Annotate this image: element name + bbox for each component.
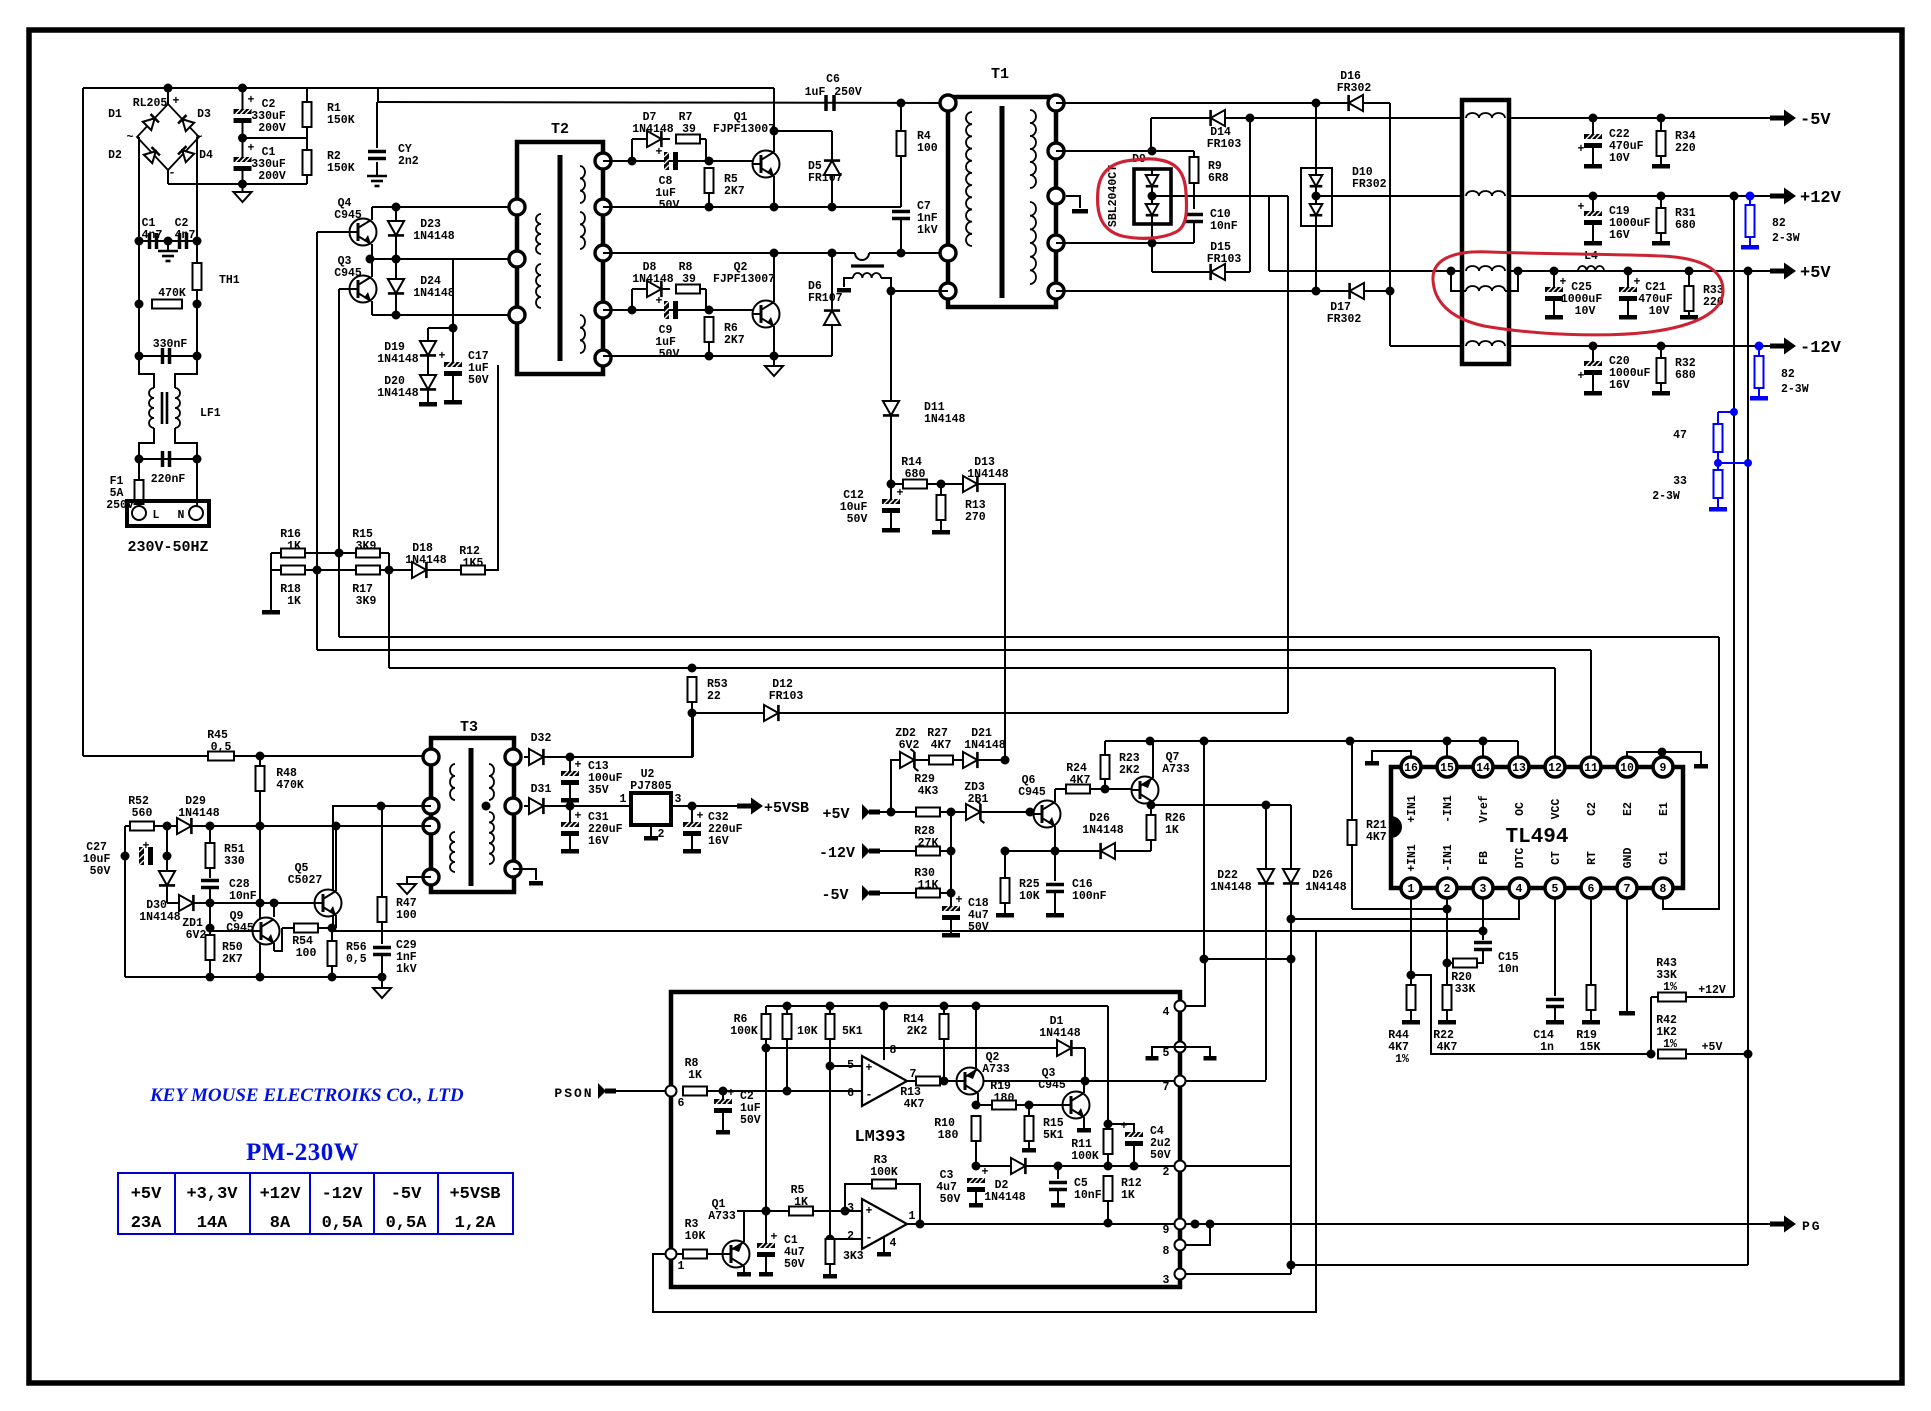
junction y271 wind a	[1447, 267, 1456, 276]
diode D17	[1341, 290, 1369, 292]
wire C31 stem	[569, 806, 571, 822]
transistor Q4	[350, 219, 377, 246]
wire base row y310	[603, 309, 753, 311]
junction D1 R6 node	[762, 1044, 771, 1053]
resistor R28 body	[916, 847, 940, 856]
svg-text:D17 FR302: D17 FR302	[1327, 301, 1362, 326]
junction y151 D9 top	[1148, 147, 1157, 156]
junction top rail bridge	[164, 84, 173, 93]
junction out8	[1206, 1220, 1215, 1229]
wire sense row y713	[692, 712, 1288, 714]
junction Q9 base node	[206, 924, 215, 933]
wire R21 to pin2	[1352, 908, 1447, 910]
junction D26b DTC	[1287, 915, 1296, 924]
wire y959 row	[1204, 958, 1291, 960]
transistor Q1 LM	[723, 1241, 750, 1268]
wire long C1 net y637	[339, 636, 1719, 638]
terminal T2 left 2	[509, 251, 525, 267]
wire ZD2 to R27	[918, 759, 929, 761]
diode D8	[642, 288, 670, 290]
svg-text:R3 100K: R3 100K	[870, 1154, 898, 1179]
junction rail Q2 col	[972, 1002, 981, 1011]
wire pin14 stub	[1482, 741, 1484, 757]
wire R48 stem	[259, 756, 261, 766]
svg-text:2-3W: 2-3W	[1781, 383, 1809, 396]
transistor Q9	[253, 918, 280, 945]
svg-text:R12 1K5: R12 1K5	[459, 545, 487, 570]
capacitor C20	[1584, 361, 1602, 375]
svg-text:2-3W: 2-3W	[1652, 490, 1680, 503]
wire out4	[1186, 959, 1205, 1006]
wire blue divider stem a	[1717, 412, 1719, 424]
junction R5 right	[841, 1207, 850, 1216]
junction R12 node	[1104, 1162, 1113, 1171]
wire TH1 bottom	[196, 290, 198, 304]
winding T2 sec a	[580, 166, 585, 203]
wire C5 stem	[1057, 1166, 1059, 1179]
svg-text:C28 10nF: C28 10nF	[229, 878, 257, 903]
earth ground 4n7	[158, 251, 178, 261]
wire D26b col	[1290, 805, 1292, 1274]
wire row553 b	[305, 552, 356, 554]
ground pin7	[1619, 1011, 1635, 1016]
svg-text:RT: RT	[1586, 851, 1599, 865]
wire T3 right gnd	[513, 869, 536, 880]
wire blue mid link	[1718, 462, 1748, 464]
wire D10 bottom to y291	[1315, 226, 1317, 291]
junction R26 top	[1147, 801, 1156, 810]
svg-text:Q2 A733: Q2 A733	[982, 1051, 1010, 1076]
wire Q4 base column x317	[316, 232, 318, 570]
wire 3K3 bottom	[829, 1264, 831, 1274]
wire Q1 emitter	[743, 1266, 745, 1272]
ground blue -12V	[1750, 396, 1768, 401]
winding T1 sec a	[1030, 110, 1036, 188]
junction PG	[1191, 1220, 1200, 1229]
wire C3 bottom	[975, 1192, 977, 1203]
wire pin1 to +5 row	[1411, 975, 1651, 1054]
capacitor C10	[1185, 215, 1203, 222]
terminal T3 left 3	[423, 818, 439, 834]
wire R10 bottom	[975, 1141, 977, 1166]
junction 10K node	[783, 1087, 792, 1096]
junction C3 node	[972, 1162, 981, 1171]
wire x125 col	[124, 826, 126, 977]
svg-text:+: +	[575, 759, 582, 772]
wire blue stem3	[1758, 388, 1760, 396]
wire R24 out	[1090, 788, 1131, 790]
resistor R1 body	[303, 102, 312, 127]
wire D30 row	[167, 902, 210, 904]
resistor R2 body	[303, 150, 312, 175]
wire Q2 collector	[773, 253, 775, 302]
svg-text:-12V: -12V	[819, 845, 855, 862]
svg-text:Q6 C945: Q6 C945	[1018, 774, 1046, 799]
capacitor C6	[826, 95, 834, 111]
junction 220nF left	[135, 455, 144, 464]
svg-text:+: +	[1560, 276, 1567, 289]
terminal N	[189, 506, 203, 520]
wire Q1 coll up	[743, 1211, 745, 1242]
wire R13 out	[940, 1080, 957, 1082]
wire U2 gnd stem	[650, 825, 652, 836]
wire D23 column	[395, 207, 397, 259]
junction -5V C22	[1589, 114, 1598, 123]
ground C21	[1619, 315, 1637, 320]
wire 330nF row	[139, 355, 197, 357]
wire pin3 col	[1482, 898, 1484, 940]
wire R1 bottom	[306, 127, 308, 138]
wire R7 corner down	[705, 139, 707, 161]
capacitor C16	[1046, 885, 1064, 892]
svg-text:-: -	[866, 1089, 873, 1102]
resistor R56 body	[328, 941, 337, 966]
svg-text:-: -	[169, 167, 176, 180]
junction 470K left	[135, 300, 144, 309]
svg-text:1: 1	[678, 1260, 685, 1273]
svg-text:VCC: VCC	[1550, 799, 1563, 820]
junction R19 left	[972, 1101, 981, 1110]
ground T1 tap	[1072, 209, 1088, 214]
junction blue mid	[1714, 459, 1722, 467]
svg-text:2: 2	[847, 1230, 854, 1243]
terminal T1 right 3	[1048, 188, 1064, 204]
diode D24	[395, 274, 397, 302]
ground C31	[561, 849, 579, 854]
wire C21 bottom	[1627, 301, 1629, 315]
junction y741 Q7e2	[1200, 737, 1209, 746]
svg-text:GND: GND	[1622, 848, 1635, 869]
svg-text:47: 47	[1673, 429, 1687, 442]
junction Q6 emitter	[1051, 847, 1060, 856]
wire op1 out	[907, 1080, 916, 1082]
wire C16 bottom	[1054, 892, 1056, 913]
svg-text:470K: 470K	[158, 287, 186, 300]
wire R20 left	[1447, 962, 1453, 964]
wire R15 top	[1028, 1105, 1030, 1116]
resistor 47 blue	[1714, 424, 1723, 452]
svg-text:PSON: PSON	[554, 1086, 593, 1101]
junction 220nF right	[193, 455, 202, 464]
wire D21 out	[981, 759, 1005, 761]
wire D16 corner down	[1389, 103, 1391, 346]
wire LM393 top rail	[766, 1005, 1108, 1007]
svg-text:9: 9	[1660, 762, 1667, 775]
junction 470K right	[193, 300, 202, 309]
svg-text:1,2A: 1,2A	[455, 1214, 497, 1233]
wire blue stem b	[1717, 498, 1719, 507]
resistor R8 body	[676, 285, 700, 294]
wire Q5 emitter	[335, 915, 337, 928]
capacitor C1 330uF bulk	[234, 157, 252, 171]
pin 16 TL494	[1401, 757, 1421, 777]
capacitor C17	[444, 362, 462, 376]
capacitor C15	[1474, 943, 1492, 950]
wire D9 out corner down	[1287, 196, 1289, 713]
svg-text:RL205: RL205	[133, 97, 168, 110]
red marker blob around L4 C25 C21 R33	[1433, 252, 1723, 335]
zener ZD1	[166, 866, 168, 894]
pin 12 TL494	[1545, 757, 1565, 777]
wire D32 out	[547, 756, 693, 758]
IC TL494 outline	[1391, 767, 1683, 888]
input flag PSON	[598, 1083, 616, 1099]
svg-text:2: 2	[658, 828, 665, 841]
wire Q2 rail up	[975, 1006, 977, 1068]
svg-text:5K1: 5K1	[842, 1025, 863, 1038]
wire T1 out y103	[1056, 102, 1390, 104]
input flag +5V	[862, 804, 880, 820]
diode D9 upper	[1151, 168, 1153, 196]
svg-text:N: N	[178, 509, 185, 522]
bridge rectifier RL205 outline	[137, 104, 199, 170]
wire pin2 col	[1446, 898, 1448, 985]
junction C27 left	[121, 852, 130, 861]
terminal T3 right 1	[505, 749, 521, 765]
pin 4 TL494	[1509, 878, 1529, 898]
svg-text:D16 FR302: D16 FR302	[1337, 70, 1372, 95]
resistor R47 body	[378, 897, 387, 922]
junction Q1 collector	[770, 127, 779, 136]
wire top rail corner down	[377, 88, 379, 102]
wire bottom rail T3 area	[125, 976, 382, 978]
wire C12 bottom	[890, 513, 892, 528]
wire pin4 DTC	[1291, 898, 1519, 919]
terminal LM393 out 2	[1175, 1161, 1186, 1172]
ground R33	[1680, 315, 1698, 320]
svg-text:ZD2 6V2: ZD2 6V2	[895, 727, 923, 752]
junction y826 R48	[256, 822, 265, 831]
wire C4 link	[1108, 1124, 1134, 1132]
wire R33 top	[1688, 271, 1690, 286]
svg-text:23A: 23A	[131, 1214, 162, 1233]
terminal T2 right 1	[595, 153, 611, 169]
junction C2 node	[719, 1087, 728, 1096]
terminal LM393 out 3	[1175, 1269, 1186, 1280]
svg-text:R54 100: R54 100	[292, 935, 320, 960]
svg-text:D2: D2	[108, 149, 122, 162]
ground R44	[1402, 1020, 1420, 1025]
svg-text:8: 8	[1163, 1245, 1170, 1258]
wire row y253 a	[603, 252, 855, 254]
junction R30 out	[947, 889, 956, 898]
AC connector box	[127, 501, 209, 526]
terminal T3 right 3	[505, 861, 521, 877]
wire D15 corner up	[1249, 118, 1251, 272]
svg-text:R19 15K: R19 15K	[1576, 1029, 1604, 1054]
junction R5 left	[762, 1207, 771, 1216]
pin 11 TL494	[1581, 757, 1601, 777]
wire minus12 feed	[1390, 345, 1462, 347]
wire 220nF row	[139, 458, 197, 460]
wire R14 top	[943, 1006, 945, 1014]
resistor R33 body	[1685, 286, 1694, 311]
wire y826 row	[125, 825, 431, 827]
junction y851 D21col	[1001, 847, 1010, 856]
svg-text:-: -	[866, 1232, 873, 1245]
wire mid to C1	[242, 138, 244, 157]
junction y207 R5	[705, 203, 714, 212]
wire +12V sense vertical	[1733, 196, 1735, 997]
wire R13 stem	[940, 484, 942, 495]
junction 330nF left	[135, 352, 144, 361]
svg-text:1: 1	[909, 1210, 916, 1223]
svg-text:1: 1	[1408, 883, 1415, 896]
wire Q3 base column x339	[338, 289, 340, 553]
junction bus top	[238, 84, 247, 93]
junction +12V R31	[1657, 192, 1666, 201]
svg-text:16: 16	[1404, 762, 1418, 775]
junction y253 C7	[897, 249, 906, 258]
choke winding -12V	[1466, 341, 1505, 346]
wire R56 stem	[331, 928, 333, 941]
wire mid rail y207	[603, 206, 901, 208]
wire R4 top	[900, 103, 902, 131]
wire R5 bottom	[708, 193, 710, 207]
svg-text:4: 4	[890, 1237, 897, 1250]
wire y1166 row	[976, 1165, 1180, 1167]
wire C1 stem	[765, 1211, 767, 1243]
svg-text:82: 82	[1772, 217, 1786, 230]
svg-text:4: 4	[1516, 883, 1523, 896]
wire R43 left	[1651, 996, 1658, 998]
winding T3 sec b	[489, 812, 494, 864]
wire R19 bottom	[1590, 1010, 1592, 1020]
svg-text:T3: T3	[460, 719, 478, 736]
capacitor C25	[1545, 287, 1563, 301]
diode D13	[958, 483, 986, 485]
svg-text:TH1: TH1	[219, 274, 240, 287]
wire long C2 net y650	[317, 649, 1591, 651]
wire R42 right	[1686, 1053, 1748, 1055]
winding T2 sec c	[580, 315, 585, 353]
arrow +5V	[1770, 263, 1796, 280]
ground op2	[877, 1252, 891, 1257]
wire y259 corner to C17	[452, 259, 454, 362]
junction R48 top	[256, 752, 265, 761]
resistor R43 body	[1658, 993, 1686, 1002]
diode D1 LM	[1052, 1047, 1080, 1049]
wire row570 c	[380, 569, 412, 571]
junction pin2 R20	[1443, 959, 1452, 968]
diode D23	[395, 216, 397, 244]
resistor R12 body	[461, 566, 485, 575]
capacitor C3	[967, 1178, 985, 1192]
svg-text:R28 27K: R28 27K	[914, 825, 942, 850]
capacitor C9	[664, 301, 678, 319]
svg-text:-5V: -5V	[391, 1185, 422, 1204]
wire C25 top	[1553, 271, 1555, 287]
wire row570 b	[305, 569, 356, 571]
choke winding +5V b	[1466, 286, 1505, 291]
resistor R16 body	[281, 549, 305, 558]
ground R32	[1652, 391, 1670, 396]
wire blue dummy load +12V stem	[1749, 196, 1751, 205]
svg-text:R22 4K7: R22 4K7	[1433, 1029, 1461, 1054]
wire rail to T1	[378, 102, 948, 103]
wire rail gnd stem	[381, 977, 383, 988]
svg-text:+: +	[728, 1087, 735, 1100]
wire -5V rail	[1509, 117, 1772, 119]
wire x389 down	[388, 553, 390, 668]
wire U2 out	[671, 805, 737, 807]
resistor R20 body	[1453, 959, 1477, 968]
wire R33 bottom	[1688, 311, 1690, 315]
svg-text:C6: C6	[826, 73, 840, 86]
svg-text:6: 6	[1588, 883, 1595, 896]
wire Q3 coll up	[1083, 1081, 1085, 1093]
diode D10 upper	[1315, 168, 1317, 196]
ground C18	[942, 933, 960, 938]
svg-text:2: 2	[1444, 883, 1451, 896]
junction y356 Q2e	[770, 352, 779, 361]
resistor R34 body	[1657, 131, 1666, 156]
svg-text:R14 680: R14 680	[901, 456, 929, 481]
arrow -5V	[1770, 110, 1796, 127]
wire Q5 collector	[335, 826, 337, 891]
svg-text:+5V: +5V	[1800, 264, 1831, 283]
wire y1080 out row	[983, 1080, 1180, 1082]
junction +5V C21	[1624, 267, 1633, 276]
capacitor C5	[1049, 1183, 1067, 1190]
wire Q3 base	[339, 288, 350, 290]
pin 6 TL494	[1581, 878, 1601, 898]
wire pin5 col	[1554, 898, 1556, 996]
terminal T1 right 1	[1048, 95, 1064, 111]
inductor L4	[1578, 266, 1604, 271]
winding T3 sec a	[489, 764, 494, 800]
winding T2 primary b	[536, 264, 541, 308]
wire D24 column	[395, 259, 397, 315]
wire mid row R1R2	[243, 137, 308, 139]
wire Q5 base	[274, 902, 314, 904]
wire y484 row	[891, 483, 972, 485]
svg-text:L: L	[153, 509, 160, 522]
junction R11 C4	[1104, 1120, 1113, 1129]
wire row570 a	[271, 569, 281, 571]
pin 14 TL494	[1473, 757, 1493, 777]
resistor R7 body	[676, 135, 700, 144]
ground T3 left	[398, 884, 416, 894]
svg-text:D15 FR103: D15 FR103	[1207, 241, 1242, 266]
diode D9 lower	[1151, 197, 1153, 225]
ground driver stage	[765, 366, 783, 376]
junction y310 R6	[705, 306, 714, 315]
wire Q1 emitter	[773, 176, 775, 207]
svg-text:E1: E1	[1658, 802, 1671, 816]
transistor Q7	[1132, 777, 1159, 804]
wire R47 to C29	[381, 922, 383, 944]
junction y207 Q1e	[770, 203, 779, 212]
choke winding -5V	[1466, 113, 1505, 118]
junction C32	[688, 802, 697, 811]
diode D10 lower	[1315, 197, 1317, 225]
wire D1 row	[766, 1047, 1085, 1049]
junction blue mid right	[1744, 459, 1752, 467]
wire R3 in row	[677, 1253, 683, 1255]
svg-text:LF1: LF1	[200, 407, 221, 420]
resistor R5 body	[705, 168, 714, 193]
junction +5V in	[887, 808, 896, 817]
transistor Q2	[753, 301, 780, 328]
wire C4 bottom	[1133, 1146, 1135, 1166]
wire C13 stem	[569, 757, 571, 771]
wire D1 corner	[1084, 1048, 1086, 1080]
ground R34	[1652, 164, 1670, 169]
svg-text:D32: D32	[531, 732, 552, 745]
junction y310 D8	[628, 306, 637, 315]
capacitor C4	[1125, 1132, 1143, 1146]
